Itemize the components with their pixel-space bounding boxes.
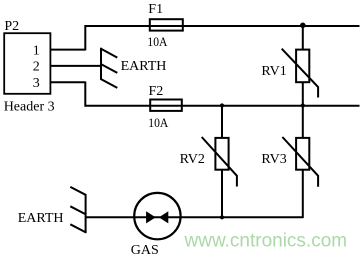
svg-text:1: 1: [33, 44, 40, 59]
svg-text:P2: P2: [4, 19, 19, 34]
svg-text:RV1: RV1: [261, 64, 286, 79]
svg-text:10A: 10A: [147, 34, 168, 49]
svg-text:2: 2: [33, 60, 40, 75]
svg-text:F2: F2: [149, 84, 164, 99]
svg-text:RV2: RV2: [180, 152, 205, 167]
svg-text:Header 3: Header 3: [4, 99, 55, 114]
svg-text:EARTH: EARTH: [18, 211, 64, 226]
svg-text:EARTH: EARTH: [121, 59, 167, 74]
svg-text:www.cntronics.com: www.cntronics.com: [184, 230, 348, 251]
svg-text:F1: F1: [148, 2, 163, 17]
svg-text:RV3: RV3: [261, 152, 286, 167]
svg-text:3: 3: [33, 76, 40, 91]
svg-text:10A: 10A: [148, 115, 169, 130]
svg-text:GAS: GAS: [131, 243, 159, 258]
